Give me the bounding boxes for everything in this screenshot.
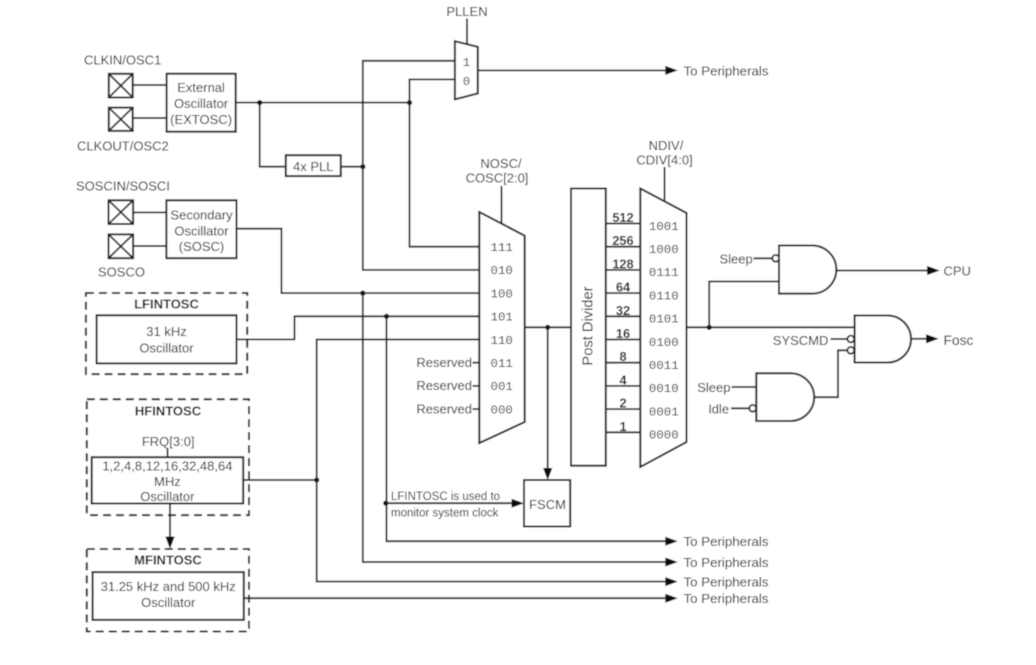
svg-text:001: 001 [491, 380, 513, 394]
wire SYSCMD to Fosc gate [831, 338, 848, 340]
svg-text:Post Divider: Post Divider [580, 286, 596, 365]
svg-text:NDIV/: NDIV/ [649, 138, 684, 153]
arrow into FSCM top [543, 468, 552, 480]
wire EXTOSC net: PLLEN mux input 0 down to NOSC row 111 [410, 79, 480, 246]
svg-text:2: 2 [619, 396, 626, 411]
wire CLKOUT pad to EXTOSC [132, 117, 166, 119]
pin pad CLKOUT/OSC2 [109, 108, 133, 131]
svg-text:8: 8 [619, 349, 626, 364]
wire LFINTOSC to FSCM [386, 502, 513, 504]
divider tap 4 [606, 372, 641, 387]
svg-text:CLKOUT/OSC2: CLKOUT/OSC2 [77, 139, 169, 154]
svg-text:COSC[2:0]: COSC[2:0] [466, 171, 529, 186]
gate U3 AND (Sleep/Idle) [756, 373, 814, 421]
svg-text:512: 512 [612, 210, 633, 225]
svg-text:Reserved: Reserved [416, 401, 472, 416]
svg-text:31 kHz: 31 kHz [146, 324, 186, 339]
svg-text:SOSCIN/SOSCI: SOSCIN/SOSCI [76, 179, 170, 194]
divider tap 256 [606, 233, 641, 248]
svg-text:To Peripherals: To Peripherals [684, 575, 769, 590]
svg-text:Sleep: Sleep [697, 380, 730, 395]
svg-text:(SOSC): (SOSC) [179, 239, 225, 254]
svg-text:CLKIN/OSC1: CLKIN/OSC1 [84, 53, 161, 68]
svg-text:External: External [177, 80, 225, 95]
mux PLLEN [455, 41, 478, 99]
block FSCM [524, 480, 570, 527]
bubble Idle invert [749, 405, 756, 412]
wire idle gate output to Fosc gate [814, 350, 847, 397]
bubble SYSCMD invert [847, 336, 854, 343]
svg-text:4x PLL: 4x PLL [293, 159, 333, 174]
svg-text:PLLEN: PLLEN [446, 4, 487, 19]
divider tap 512 [606, 210, 641, 225]
label NOSC/COSC[2:0] [466, 156, 529, 186]
svg-text:000: 000 [491, 403, 513, 417]
block LFINTOSC (dashed) [86, 293, 247, 374]
wire PLLEN select [466, 19, 468, 45]
svg-text:Reserved: Reserved [416, 378, 472, 393]
svg-text:1: 1 [619, 419, 626, 434]
svg-text:To Peripherals: To Peripherals [684, 64, 769, 79]
junction SOSC net tap [360, 291, 365, 296]
junction CPU gate tap [707, 325, 712, 330]
svg-text:Oscillator: Oscillator [174, 224, 229, 239]
svg-text:CPU: CPU [944, 264, 971, 279]
svg-text:LFINTOSC is used to: LFINTOSC is used to [391, 491, 500, 503]
svg-text:011: 011 [491, 357, 513, 371]
svg-text:111: 111 [491, 241, 513, 255]
svg-text:MHz: MHz [154, 474, 181, 489]
divider tap 64 [606, 280, 641, 295]
gate U1 AND (CPU) [779, 246, 836, 294]
svg-text:0100: 0100 [649, 336, 679, 350]
note LFINTOSC is used to monitor system clock [391, 491, 500, 520]
block 4x PLL [286, 155, 341, 176]
pin pad CLKIN/OSC1 [109, 74, 133, 98]
wire CLKIN pad to EXTOSC [132, 84, 166, 86]
svg-text:monitor system clock: monitor system clock [391, 508, 499, 520]
svg-text:HFINTOSC: HFINTOSC [135, 404, 202, 419]
svg-text:0111: 0111 [649, 266, 679, 280]
svg-text:MFINTOSC: MFINTOSC [134, 553, 202, 568]
svg-text:NOSC/: NOSC/ [480, 156, 522, 171]
svg-text:LFINTOSC: LFINTOSC [134, 297, 199, 312]
block External Oscillator (EXTOSC) [167, 74, 236, 132]
svg-text:1,2,4,8,12,16,32,48,64: 1,2,4,8,12,16,32,48,64 [102, 459, 232, 474]
arrow Fosc [926, 334, 939, 343]
divider tap 16 [606, 326, 641, 341]
divider tap 8 [606, 349, 641, 364]
svg-text:Reserved: Reserved [416, 355, 472, 370]
junction EXTOSC to PLL branch [257, 100, 262, 105]
wire up to CPU gate [709, 282, 779, 328]
arrow into MFINTOSC [165, 537, 174, 550]
divider tap 2 [606, 396, 641, 411]
wire down to FSCM [547, 327, 549, 469]
bubble idle-gate invert [847, 347, 854, 354]
svg-text:0010: 0010 [649, 382, 679, 396]
block Post Divider [571, 189, 606, 466]
divider tap 128 [606, 256, 641, 271]
wire SOSCO pad to SOSC [133, 245, 166, 247]
wire FRQ select [167, 448, 169, 457]
svg-text:Oscillator: Oscillator [141, 595, 196, 610]
svg-text:010: 010 [491, 264, 513, 278]
svg-text:16: 16 [616, 326, 630, 341]
svg-text:To Peripherals: To Peripherals [684, 534, 769, 549]
wire NOSC mux output to Post Divider [525, 326, 571, 328]
block 31.25 kHz and 500 kHz Oscillator [93, 572, 244, 620]
svg-text:1: 1 [463, 56, 470, 70]
wire LFINTOSC output to NOSC row 101 [237, 316, 480, 339]
block Secondary Oscillator (SOSC) [166, 200, 236, 258]
divider tap 32 [606, 303, 641, 318]
label Reserved row 001 [416, 378, 479, 393]
divider tap 1 [606, 419, 641, 434]
wire 4x PLL output [341, 166, 363, 168]
arrow into FSCM [512, 499, 525, 508]
svg-text:To Peripherals: To Peripherals [684, 555, 769, 570]
svg-text:1000: 1000 [649, 243, 679, 257]
wire PLLEN mux output to peripherals [478, 69, 667, 71]
wire NOSC select [501, 186, 503, 224]
svg-text:0101: 0101 [649, 313, 679, 327]
svg-text:Oscillator: Oscillator [140, 489, 195, 504]
junction EXTOSC net at x409 [407, 100, 412, 105]
wire Sleep to idle gate [732, 386, 757, 388]
label Reserved row 011 [416, 355, 479, 370]
wire PLL net: PLLEN mux input 1 down to NOSC row 010 [363, 61, 480, 270]
svg-text:128: 128 [612, 256, 633, 271]
svg-text:FRQ[3:0]: FRQ[3:0] [142, 434, 195, 449]
arrow to peripherals line 2 [665, 558, 678, 567]
svg-text:64: 64 [616, 280, 631, 295]
svg-text:1001: 1001 [649, 220, 679, 234]
svg-text:FSCM: FSCM [529, 497, 566, 512]
wire HFINTOSC down to MFINTOSC [169, 504, 171, 538]
svg-text:SOSCO: SOSCO [98, 265, 145, 280]
svg-text:Secondary: Secondary [170, 208, 233, 223]
svg-text:(EXTOSC): (EXTOSC) [170, 112, 232, 127]
arrow CPU [927, 266, 940, 275]
mux NOSC/COSC [479, 212, 524, 443]
svg-text:0110: 0110 [649, 289, 679, 303]
svg-text:SYSCMD: SYSCMD [773, 333, 829, 348]
svg-text:0001: 0001 [649, 405, 679, 419]
label Reserved row 000 [416, 401, 479, 416]
block 31 kHz Oscillator [97, 315, 237, 363]
block 1,2,4,8,12,16,32,48,64 MHz Oscillator [92, 457, 244, 504]
svg-text:0: 0 [463, 75, 470, 89]
wire Idle to idle gate [731, 407, 749, 409]
svg-text:100: 100 [491, 287, 513, 301]
svg-text:32: 32 [616, 303, 630, 318]
pin pad SOSCIN [109, 200, 134, 224]
wire HFINTOSC net up to NOSC row 110 [317, 340, 480, 481]
block HFINTOSC (dashed) [87, 399, 249, 515]
arrow to peripherals line 4 [665, 594, 678, 603]
label NDIV/CDIV[4:0] [636, 138, 692, 168]
wire LFINTOSC tap down to peripherals line 1 [387, 316, 667, 541]
junction PLL output on PLLEN-1 feed [360, 164, 365, 169]
svg-text:To Peripherals: To Peripherals [684, 591, 769, 606]
svg-text:Fosc: Fosc [944, 333, 974, 348]
junction LFINTOSC to FSCM tap [383, 501, 388, 506]
svg-text:0000: 0000 [649, 429, 679, 443]
junction HFINTOSC net [314, 477, 319, 482]
svg-text:31.25 kHz and 500 kHz: 31.25 kHz and 500 kHz [101, 579, 236, 594]
wire EXTOSC output to node A [236, 102, 410, 104]
wire NDIV mux output main clock [687, 326, 855, 328]
svg-text:Idle: Idle [708, 402, 729, 417]
wire Fosc gate output [911, 338, 926, 340]
svg-text:4: 4 [619, 372, 627, 387]
wire branch down to 4x PLL [260, 103, 286, 167]
junction FSCM tap [545, 325, 550, 330]
svg-text:110: 110 [491, 334, 513, 348]
arrow to peripherals line 1 [665, 537, 678, 546]
pin pad SOSCO [109, 234, 134, 258]
bubble Sleep invert [772, 255, 779, 262]
mux NDIV/CDIV [640, 189, 686, 468]
svg-text:Sleep: Sleep [720, 252, 753, 267]
wire HFINTOSC net down to peripherals line 3 [317, 480, 667, 582]
svg-text:CDIV[4:0]: CDIV[4:0] [636, 153, 692, 168]
wire SOSC output to NOSC row 100 [237, 229, 480, 293]
wire Sleep to CPU gate [754, 257, 773, 259]
wire CPU gate output [836, 270, 927, 272]
wire HFINTOSC output [243, 479, 317, 481]
junction LFINTOSC net tap [384, 314, 389, 319]
svg-text:Oscillator: Oscillator [139, 340, 194, 355]
arrow to peripherals line 3 [665, 577, 678, 586]
svg-text:0011: 0011 [649, 359, 679, 373]
arrow to peripherals top [665, 66, 678, 75]
wire SOSC tap down to peripherals line 2 [363, 293, 667, 562]
block MFINTOSC (dashed) [87, 549, 249, 632]
svg-text:Oscillator: Oscillator [174, 96, 229, 111]
wire MFINTOSC output to peripherals line 4 [244, 597, 667, 599]
svg-text:101: 101 [491, 311, 513, 325]
wire SOSCIN pad to SOSC [133, 211, 166, 213]
gate U2 AND (Fosc) [855, 316, 911, 363]
svg-text:256: 256 [612, 233, 633, 248]
wire NDIV select [664, 167, 666, 202]
